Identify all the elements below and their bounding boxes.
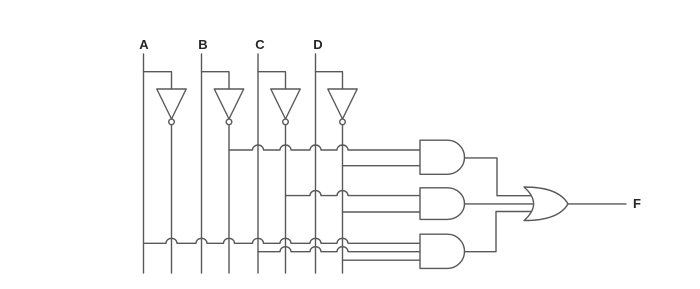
wire AND U7 output to OR U8 pin 3	[465, 212, 539, 252]
wire A-not vertical	[171, 125, 173, 273]
and-gate U7	[420, 234, 465, 268]
wire B to inverter U2 input	[202, 72, 230, 89]
inverter U3 (C)	[271, 89, 300, 125]
wire B-not vertical	[228, 125, 230, 273]
wire input C vertical	[257, 54, 259, 273]
svg-text:A: A	[139, 37, 149, 52]
wire D-not to AND U6 pin 2	[343, 211, 421, 213]
inverter U4 (D)	[328, 89, 357, 125]
inverter U2 (B)	[214, 89, 243, 125]
wire AND U6 output to OR U8 pin 2	[465, 203, 541, 205]
wire A to inverter U1 input	[144, 72, 172, 89]
wire A to AND U7 pin 1 (hops over A-not, B, B-not, C, C-not, D, D-not)	[144, 238, 421, 243]
wire D to inverter U4 input	[316, 72, 343, 89]
wire input B vertical	[201, 54, 203, 273]
wire input A vertical	[143, 54, 145, 273]
wire C-not vertical	[285, 125, 287, 273]
svg-text:C: C	[255, 37, 265, 52]
and-gate U5	[420, 140, 465, 174]
wire D-not to AND U5 pin 2	[343, 165, 421, 167]
wire B-not to AND U5 pin 1 (hops over C, C-not, D, D-not)	[229, 145, 420, 150]
svg-text:B: B	[198, 37, 207, 52]
wire C to inverter U3 input	[258, 72, 286, 89]
wire C to AND U7 pin 2 (hops over C-not, D, D-not)	[258, 247, 420, 252]
inverter U1 (A)	[157, 89, 186, 125]
and-gate U6	[420, 188, 465, 220]
wire AND U5 output to OR U8 pin 1	[465, 158, 539, 196]
svg-text:F: F	[633, 196, 641, 211]
or-gate U8	[524, 187, 568, 221]
wire D-not to AND U7 pin 3	[343, 259, 421, 261]
svg-text:D: D	[313, 37, 322, 52]
wire C-not to AND U6 pin 1 (hops over D, D-not)	[286, 191, 421, 196]
wire input D vertical	[315, 54, 317, 273]
wire OR U8 output to F	[568, 203, 626, 205]
wire D-not vertical	[342, 125, 344, 273]
